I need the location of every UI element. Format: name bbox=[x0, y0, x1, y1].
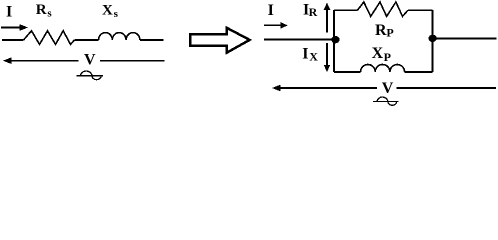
current arrow I (parallel) bbox=[264, 22, 288, 28]
svg-text:X: X bbox=[372, 45, 384, 62]
wire between RS and XS bbox=[75, 39, 99, 41]
wire top-left (series) bbox=[2, 39, 24, 41]
AC source symbol (series) bbox=[76, 71, 103, 80]
svg-text:V: V bbox=[382, 80, 394, 97]
current arrow I (series) bbox=[1, 24, 28, 31]
svg-text:P: P bbox=[384, 50, 391, 64]
wire parallel-box top edge left bbox=[334, 9, 358, 11]
branch current arrow IR (up) bbox=[324, 3, 331, 33]
AC source symbol (parallel) bbox=[373, 97, 399, 105]
svg-text:I: I bbox=[6, 3, 12, 20]
svg-text:I: I bbox=[268, 2, 274, 19]
wire parallel-box bottom edge right bbox=[405, 71, 433, 73]
svg-text:V: V bbox=[84, 52, 96, 69]
svg-text:s: s bbox=[47, 8, 52, 20]
resistor RS bbox=[24, 31, 75, 45]
inductor XS value label bbox=[102, 2, 119, 20]
voltage arrow line V (series) bbox=[3, 57, 165, 64]
node B (right junction dot) bbox=[429, 35, 437, 42]
resistor RP value label bbox=[375, 22, 394, 40]
branch current arrow IX (down) bbox=[324, 43, 331, 72]
inductor XP value label bbox=[372, 45, 391, 64]
svg-text:I: I bbox=[302, 45, 308, 62]
inductor XP bbox=[361, 64, 405, 72]
svg-text:X: X bbox=[102, 2, 113, 18]
node A (left junction dot) bbox=[331, 36, 339, 43]
wire parallel-box left edge bbox=[333, 10, 335, 72]
svg-text:R: R bbox=[375, 22, 387, 39]
current label IX bbox=[302, 45, 318, 63]
wire top-right (series) bbox=[140, 39, 164, 41]
wire into node (parallel) bbox=[264, 39, 335, 41]
wire parallel-box top edge right bbox=[408, 9, 433, 11]
svg-text:P: P bbox=[386, 26, 393, 40]
svg-text:s: s bbox=[114, 8, 119, 20]
current label IR bbox=[303, 2, 318, 20]
resistor RS value label bbox=[36, 2, 53, 20]
wire parallel-box right edge bbox=[432, 10, 434, 72]
voltage arrow line V (parallel) bbox=[272, 85, 496, 92]
equivalence block arrow bbox=[190, 28, 250, 53]
svg-text:R: R bbox=[36, 2, 47, 18]
svg-text:R: R bbox=[309, 5, 318, 19]
wire out of node B bbox=[433, 38, 497, 40]
wire parallel-box bottom edge left bbox=[334, 71, 361, 73]
svg-text:X: X bbox=[309, 50, 318, 64]
inductor XS bbox=[99, 33, 140, 40]
resistor RP bbox=[358, 2, 409, 16]
